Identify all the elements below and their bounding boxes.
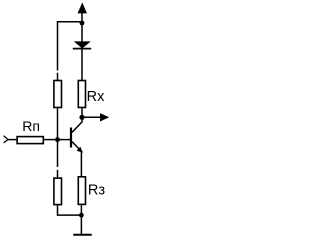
svg-text:Rз: Rз: [88, 183, 106, 199]
svg-text:Rп: Rп: [22, 118, 40, 134]
svg-text:Rx: Rx: [87, 89, 105, 105]
